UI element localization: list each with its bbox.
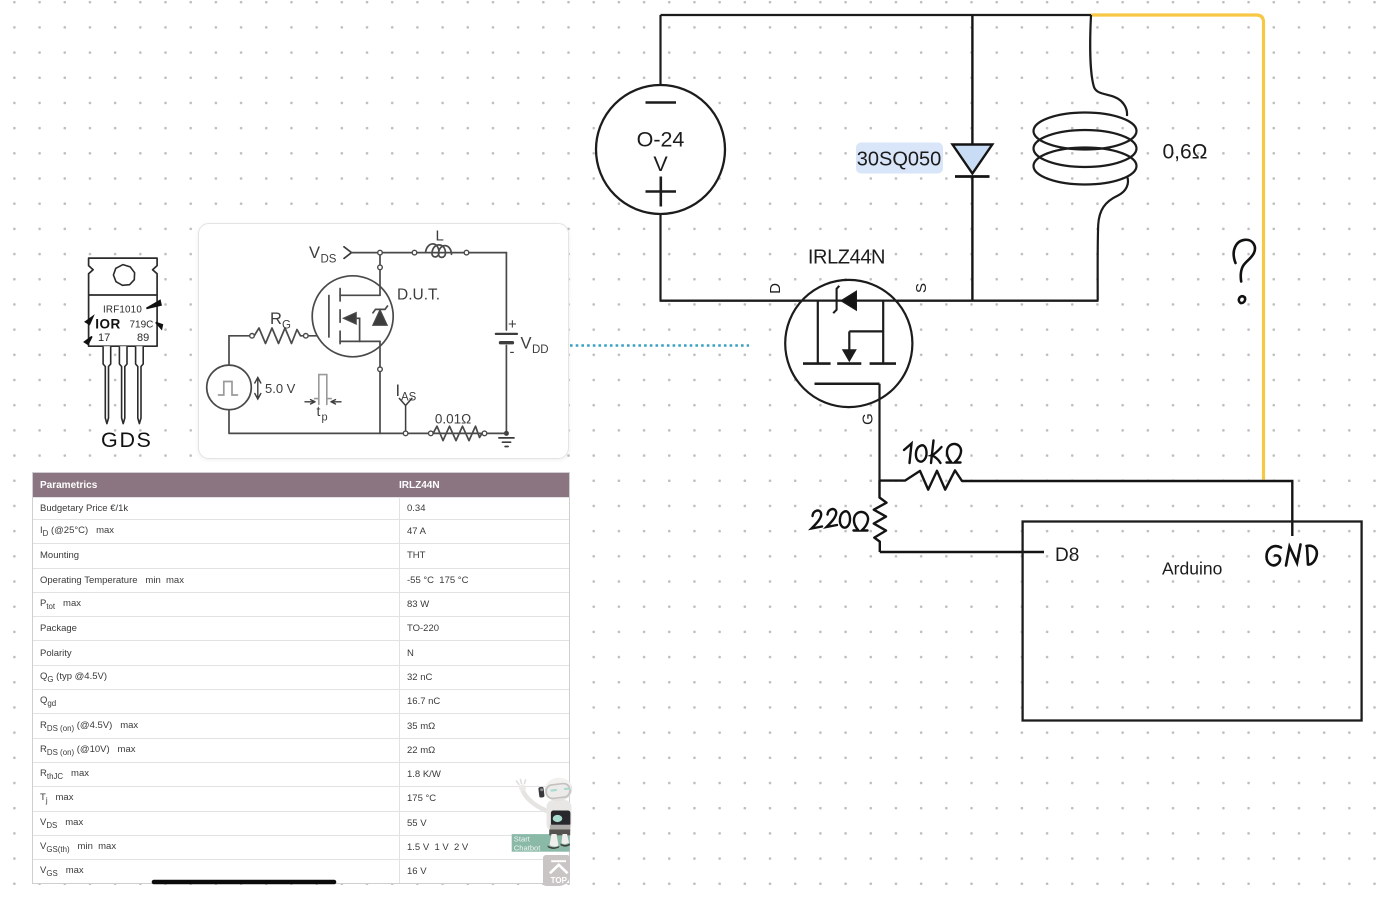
label: 10k ohm handwritten [904,441,961,464]
Arduino board U1 [1023,522,1362,721]
resistor R2 220 [874,481,887,552]
wire: right rail to battery [505,253,507,330]
pulse waveform glyph [219,382,238,396]
node circles [250,250,487,435]
wire: source bottom lead [659,214,661,301]
wire: top rail [352,252,507,254]
svg-text:719C: 719C [130,320,154,331]
svg-text:D: D [767,283,784,294]
label: 220 ohm handwritten [812,509,869,530]
svg-text:0,6Ω: 0,6Ω [1163,141,1208,164]
label: 5.0 V with arrow [255,378,261,400]
label: tp [317,403,328,424]
svg-text:V: V [309,244,320,262]
svg-text:p: p [322,412,328,424]
svg-text:Start: Start [514,835,531,844]
svg-text:30SQ050: 30SQ050 [857,149,942,171]
wire: yellow net from top rail to gate resistor net [1091,15,1264,480]
battery VDD [496,334,517,343]
IAS probe arrow [399,398,412,433]
VDS probe arrow [344,247,352,259]
voltage source V1 0-24V [596,85,725,214]
inductor L1 [1034,15,1137,301]
diode D1 30SQ050 [953,15,993,301]
svg-text:-: - [510,344,515,361]
svg-text:G: G [282,320,291,332]
dotted cyan annotation line [570,344,749,347]
svg-text:IRF1010: IRF1010 [103,305,142,316]
wire: R1 to GND pin of Arduino [975,481,1292,536]
label: VDS [309,244,337,266]
svg-text:D8: D8 [1055,545,1079,566]
svg-text:D: D [120,428,136,452]
svg-text:IRLZ44N: IRLZ44N [808,247,885,269]
handwritten question mark [1234,240,1255,303]
label: 30SQ050 highlighted [856,143,943,174]
svg-text:L: L [436,228,444,245]
svg-text:Chatbot: Chatbot [514,843,541,852]
pulse generator source [207,365,252,410]
parametrics table [32,472,570,884]
pin label GND handwritten [1267,545,1317,566]
svg-text:I: I [396,382,401,400]
svg-text:R: R [270,310,282,328]
svg-text:t: t [317,403,321,419]
wire: battery to ground [505,346,507,434]
label: + VDD - [508,316,549,361]
wire: RG to gate [308,335,329,337]
datasheet test-circuit card [198,223,569,460]
TOP button [543,855,570,886]
svg-text:V: V [653,152,668,176]
svg-text:17: 17 [98,332,110,344]
svg-text:V: V [521,335,532,353]
junction dot [504,431,509,436]
svg-text:D.U.T.: D.U.T. [397,287,440,304]
svg-text:Arduino: Arduino [1162,559,1222,579]
inductor L [426,244,452,257]
TO-220 package photo (IRF1010) [80,250,170,455]
wire: bottom rail [229,410,506,434]
svg-text:+: + [508,316,517,333]
wire: gate lead down [878,384,880,481]
svg-text:S: S [137,428,151,452]
svg-text:DS: DS [321,254,337,266]
svg-text:G: G [860,413,877,425]
svg-text:TOP: TOP [550,876,567,885]
svg-text:G: G [101,428,118,452]
label: 0.01 ohm [435,412,471,427]
label: L [436,228,444,245]
robot mascot [517,776,574,849]
start chatbot button [512,834,570,852]
chatbot widget [505,768,583,890]
annotation arrows [85,301,163,345]
svg-text:89: 89 [137,332,149,344]
svg-text:O-24: O-24 [637,128,685,152]
wire: source top lead [659,15,661,85]
wire: bottom rail (drain-source net) [660,300,1099,302]
svg-text:S: S [913,283,930,293]
label: D.U.T. [397,287,440,304]
resistor R1 10k [880,470,976,489]
wire: top rail from source to inductor [661,14,1092,16]
resistor 0.01 ohm [433,426,482,440]
package body [89,258,158,346]
svg-text:IOR: IOR [95,317,121,332]
resistor RG [254,328,303,344]
label: RG [270,310,291,332]
ground [499,438,514,447]
pulse width glyph tp [315,375,332,405]
label: 0-24 V [637,128,685,177]
svg-text:5.0 V: 5.0 V [265,381,296,396]
label: IAS [396,382,417,404]
svg-text:DD: DD [532,344,549,356]
transistor Q1 IRLZ44N [660,280,1099,407]
legs G D S [103,346,143,423]
handwritten underline mark [140,872,350,892]
wire: source to RG [229,336,250,365]
D.U.T. mosfet [312,253,393,434]
svg-text:0.01Ω: 0.01Ω [435,412,471,427]
wire: R2 to Arduino D8 pin [880,551,1044,553]
